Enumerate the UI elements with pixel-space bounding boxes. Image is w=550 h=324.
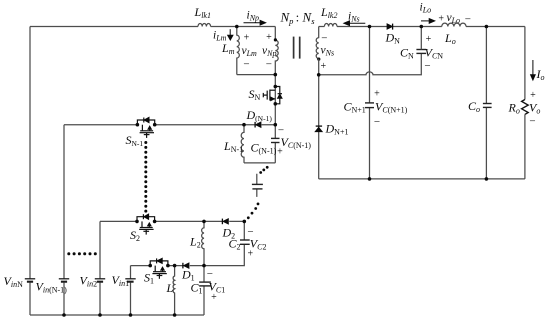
- svg-text:−: −: [278, 125, 284, 137]
- inductor Lo: [442, 23, 466, 26]
- battery Vin1: [125, 278, 135, 280]
- polarity dot Np: [274, 38, 277, 41]
- svg-text:Np : Ns: Np : Ns: [280, 10, 316, 27]
- svg-text:vLm: vLm: [242, 45, 258, 58]
- capacitor CN+1: [365, 102, 374, 104]
- svg-text:Llk2: Llk2: [320, 5, 337, 20]
- inductor LN-1: [241, 125, 244, 163]
- wire top rail to DN: [337, 26, 387, 28]
- svg-text:Lm: Lm: [221, 41, 235, 56]
- svg-text:Llk1: Llk1: [194, 5, 211, 20]
- svg-text:−: −: [465, 13, 471, 25]
- wire column Vin(N-1): [63, 125, 65, 279]
- body diode SN-1: [144, 117, 149, 122]
- inductor L2: [202, 221, 204, 265]
- svg-text:+: +: [374, 89, 380, 100]
- svg-text:SN-1: SN-1: [126, 133, 144, 148]
- wire stage N-1 bottom: [244, 162, 275, 164]
- svg-text:−: −: [424, 60, 430, 72]
- junction S1 right: [166, 264, 170, 268]
- junction L1 top: [173, 264, 177, 268]
- polarity dot Ns: [317, 58, 320, 61]
- battery Vin2: [95, 278, 105, 280]
- current arrow iNp: [244, 22, 261, 24]
- wire SN drain: [274, 75, 276, 104]
- winding Ns top corner: [316, 27, 319, 59]
- wire primary bottom: [237, 74, 275, 76]
- svg-text:L2: L2: [189, 235, 201, 250]
- inductor Llk1: [198, 23, 211, 26]
- svg-text:C2: C2: [229, 237, 241, 252]
- ellipsis diagonal lower: [257, 203, 260, 206]
- wire row 2: [100, 220, 244, 222]
- junction secondary top: [368, 25, 372, 29]
- current arrow iLo: [421, 20, 430, 22]
- junction Co bottom: [485, 177, 489, 181]
- junction SN-1 right: [153, 123, 157, 127]
- svg-text:Co: Co: [468, 99, 480, 114]
- svg-text:D(N-1): D(N-1): [246, 108, 273, 123]
- winding Np: [275, 27, 278, 75]
- svg-text:LN-1: LN-1: [223, 139, 243, 154]
- ellipsis vertical between S2 and SN-1: [144, 141, 147, 144]
- inductor L1: [173, 266, 175, 315]
- junction LN-1 top: [242, 123, 246, 127]
- source arrow SN-1: [148, 126, 151, 129]
- svg-text:iNp: iNp: [247, 10, 260, 23]
- diode DN-1: [256, 122, 261, 127]
- svg-text:+: +: [530, 90, 536, 101]
- wire column Vin2: [99, 221, 101, 278]
- capacitor CN-1: [274, 125, 276, 163]
- junction CN-1 top: [274, 123, 278, 127]
- svg-text:−: −: [207, 268, 213, 280]
- svg-text:S2: S2: [130, 228, 140, 243]
- diode DN+1: [315, 127, 322, 131]
- svg-text:vLo: vLo: [447, 12, 461, 25]
- diode DN handled below; wire after: [393, 26, 442, 28]
- svg-text:Vin1: Vin1: [112, 273, 130, 288]
- junction S1 left: [148, 264, 152, 268]
- svg-text:+: +: [277, 147, 283, 158]
- junction C2 top: [243, 220, 247, 224]
- wire row N-1: [64, 124, 275, 126]
- svg-text:iNs: iNs: [348, 11, 360, 24]
- junction Co top: [485, 25, 489, 29]
- junction C1 top: [202, 264, 206, 268]
- svg-text:−: −: [529, 116, 535, 128]
- junction S2 right: [153, 220, 157, 224]
- wire left rail: [29, 27, 31, 279]
- inductor Lm: [237, 27, 240, 75]
- svg-text:CN: CN: [400, 46, 414, 61]
- svg-text:S1: S1: [144, 271, 154, 286]
- wire left rail lower: [29, 283, 31, 316]
- wire secondary top rail: [319, 26, 325, 28]
- source arrow SN: [271, 97, 274, 100]
- junction Vin2 bottom: [98, 313, 102, 317]
- body diode SN: [278, 94, 282, 98]
- svg-text:−: −: [266, 59, 272, 71]
- junction SN source: [274, 102, 278, 106]
- transistor S1: [150, 258, 168, 278]
- svg-text:+: +: [426, 34, 432, 45]
- capacitor C1: [203, 266, 205, 315]
- wire row 1: [131, 265, 205, 267]
- diode DN+1 wire: [318, 75, 320, 179]
- capacitor link chain: [256, 174, 258, 197]
- svg-text:+: +: [211, 292, 217, 303]
- current arrow iNs: [349, 22, 366, 24]
- capacitor C2: [204, 221, 244, 265]
- junction CN+1 bottom: [368, 177, 372, 181]
- wire bottom rail left: [30, 314, 204, 316]
- junction S2 left: [135, 220, 139, 224]
- svg-text:Vin2: Vin2: [80, 274, 98, 289]
- svg-text:VC(N+1): VC(N+1): [375, 100, 408, 115]
- wire CN+1 column: [369, 27, 371, 179]
- body diode S2: [144, 214, 149, 219]
- junction Ns bottom: [317, 73, 321, 77]
- junction L2 top: [202, 220, 206, 224]
- diodes and arrows (filled): [144, 19, 535, 271]
- svg-text:Vo: Vo: [529, 101, 540, 116]
- current arrow Io: [532, 60, 534, 76]
- junction Vin1 bottom: [129, 313, 133, 317]
- wire top rail right: [466, 26, 525, 28]
- svg-text:+: +: [320, 61, 326, 72]
- svg-text:Ro: Ro: [508, 101, 520, 116]
- wire bottom rail right: [319, 178, 525, 180]
- source arrow S2: [148, 223, 151, 226]
- junction Lm top: [235, 25, 239, 29]
- wire top rail primary: [30, 26, 198, 28]
- svg-text:VCN: VCN: [425, 46, 444, 61]
- wire clamp connector with hop: [319, 53, 422, 74]
- svg-text:SN: SN: [249, 87, 261, 102]
- capacitor Co: [485, 27, 487, 179]
- wire SN to row: [274, 104, 276, 125]
- svg-text:+: +: [438, 13, 444, 24]
- battery VinN: [25, 278, 35, 280]
- transistor S2: [137, 214, 155, 234]
- wire right rail: [524, 27, 526, 100]
- svg-text:DN+1: DN+1: [325, 122, 349, 137]
- diode DN: [387, 24, 392, 29]
- wire top rail to primary corner: [211, 26, 276, 28]
- svg-text:DN: DN: [385, 31, 401, 46]
- svg-text:+: +: [244, 32, 250, 43]
- transistor SN channel: [263, 90, 275, 101]
- ellipsis diagonal upper: [266, 166, 269, 169]
- junction SN-1 left: [136, 123, 140, 127]
- svg-text:+: +: [247, 248, 253, 259]
- junction primary bottom: [274, 73, 278, 77]
- junction SN drain: [274, 85, 278, 89]
- wire column Vin1: [130, 266, 132, 279]
- junction Vin(N-1) bottom: [62, 313, 66, 317]
- svg-text:Io: Io: [536, 67, 545, 82]
- junction L1 bottom: [173, 313, 177, 317]
- battery Vin(N-1): [59, 278, 69, 280]
- ellipsis dots: [67, 141, 268, 255]
- transistor SN body diode: [275, 87, 282, 104]
- svg-text:−: −: [247, 226, 253, 238]
- diode D2: [223, 219, 228, 224]
- source arrow S1: [161, 267, 164, 270]
- core bars: [293, 37, 295, 59]
- body diode S1: [157, 258, 162, 263]
- current arrow iLm: [229, 29, 231, 36]
- svg-text:VC(N-1): VC(N-1): [281, 135, 312, 150]
- svg-text:L: L: [166, 281, 174, 295]
- junction CN top: [420, 25, 424, 29]
- inductor Llk2: [324, 23, 337, 26]
- ellipsis horizontal between sources: [67, 252, 70, 255]
- svg-text:vNs: vNs: [321, 45, 335, 58]
- svg-text:VinN: VinN: [4, 274, 24, 289]
- svg-text:CN+1: CN+1: [344, 100, 366, 115]
- svg-text:−: −: [243, 59, 249, 71]
- resistor Ro: [522, 100, 529, 115]
- svg-text:−: −: [321, 32, 327, 44]
- transistor SN-1: [137, 118, 154, 138]
- svg-text:iLo: iLo: [420, 2, 432, 15]
- svg-text:−: −: [374, 116, 380, 128]
- svg-text:+: +: [266, 32, 272, 43]
- svg-text:Lo: Lo: [444, 31, 456, 46]
- svg-text:vNp: vNp: [262, 45, 276, 58]
- diode D1: [184, 263, 189, 268]
- capacitor CN: [416, 49, 426, 51]
